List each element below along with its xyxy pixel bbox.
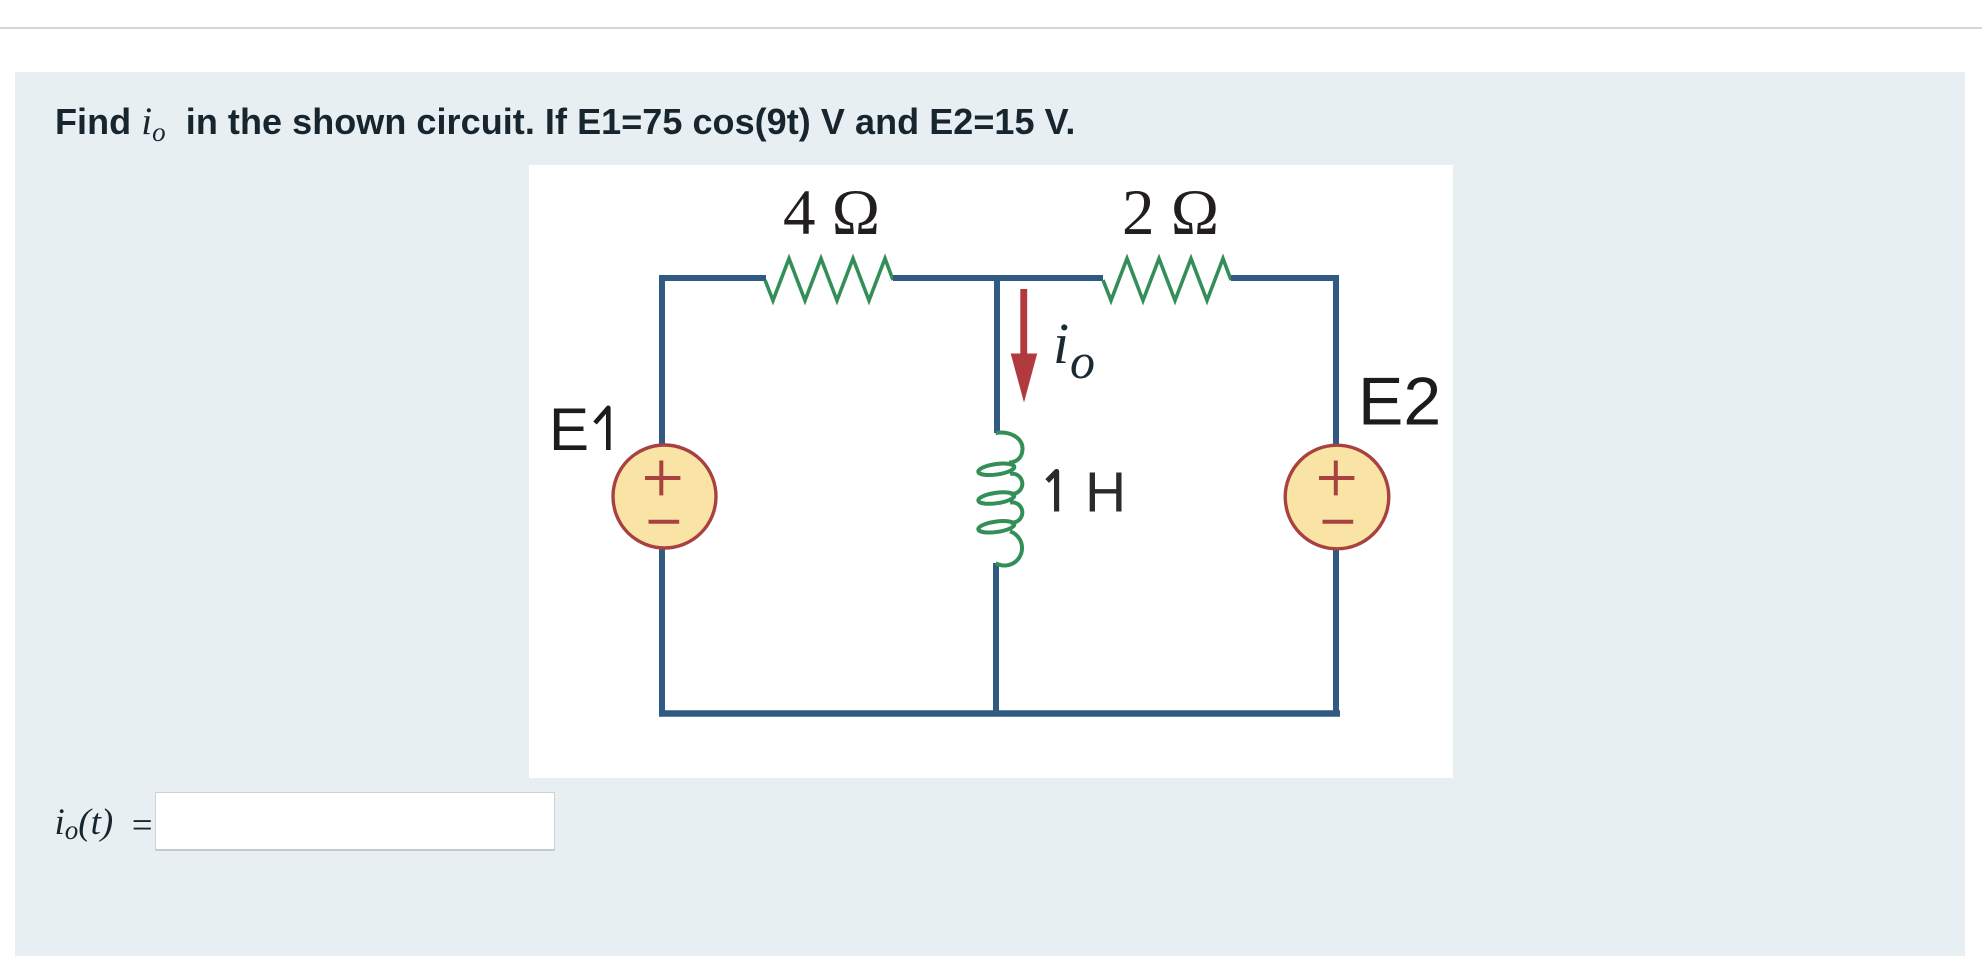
svg-text:4 Ω: 4 Ω [783,177,880,249]
voltage source E1 circle [613,445,716,548]
inductor L 1H coil [996,433,1023,566]
wire: top-right horizontal segment [1231,275,1339,281]
question title [55,102,1075,146]
label 1H [1047,472,1056,512]
wire: top-middle horizontal segment [893,275,1103,281]
E1 plus sign [645,461,680,496]
voltage source E2 circle [1285,445,1389,549]
E1 minus sign [649,520,680,524]
answer label io(t) = [55,804,153,844]
wire: bottom horizontal [659,710,1340,717]
answer input box [155,792,555,851]
wire: top-left horizontal segment [659,275,766,281]
top divider line [0,27,1982,29]
svg-text:2 Ω: 2 Ω [1122,177,1219,249]
wire: right rail vertical [1333,275,1339,717]
wire: middle rail upper segment [994,275,1000,433]
svg-text:o: o [1070,333,1095,389]
svg-text:E2: E2 [1358,364,1441,440]
resistor R2 2Ω zigzag [1103,259,1231,301]
svg-text:H: H [1085,461,1126,525]
svg-text:E: E [549,396,589,463]
E2 minus sign [1323,520,1354,524]
svg-text:i: i [1053,311,1069,376]
current arrow io [1020,289,1027,357]
wire: left rail vertical [659,275,665,717]
wire: middle rail lower segment [993,563,999,717]
circuit image white box [529,165,1453,778]
E2 plus sign [1319,461,1354,496]
resistor R1 4Ω zigzag [765,259,893,301]
